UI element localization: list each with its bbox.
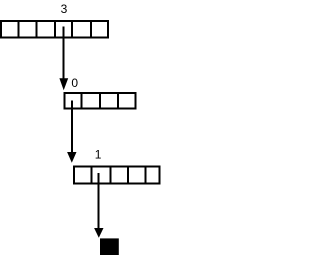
svg-text:3: 3 (61, 2, 68, 16)
svg-text:1: 1 (95, 148, 102, 162)
filled terminal square (100, 238, 119, 255)
wire arrow1 shaft (63, 26, 65, 80)
array A3 (74, 167, 160, 184)
svg-text:0: 0 (71, 76, 78, 90)
wire arrow2 shaft (71, 101, 73, 155)
arrow1 head (59, 78, 68, 90)
wire arrow3 shaft (98, 173, 100, 230)
array A1 (1, 21, 108, 38)
arrow2 head (67, 152, 76, 163)
array A2 (65, 93, 136, 109)
arrow3 head (94, 228, 103, 238)
